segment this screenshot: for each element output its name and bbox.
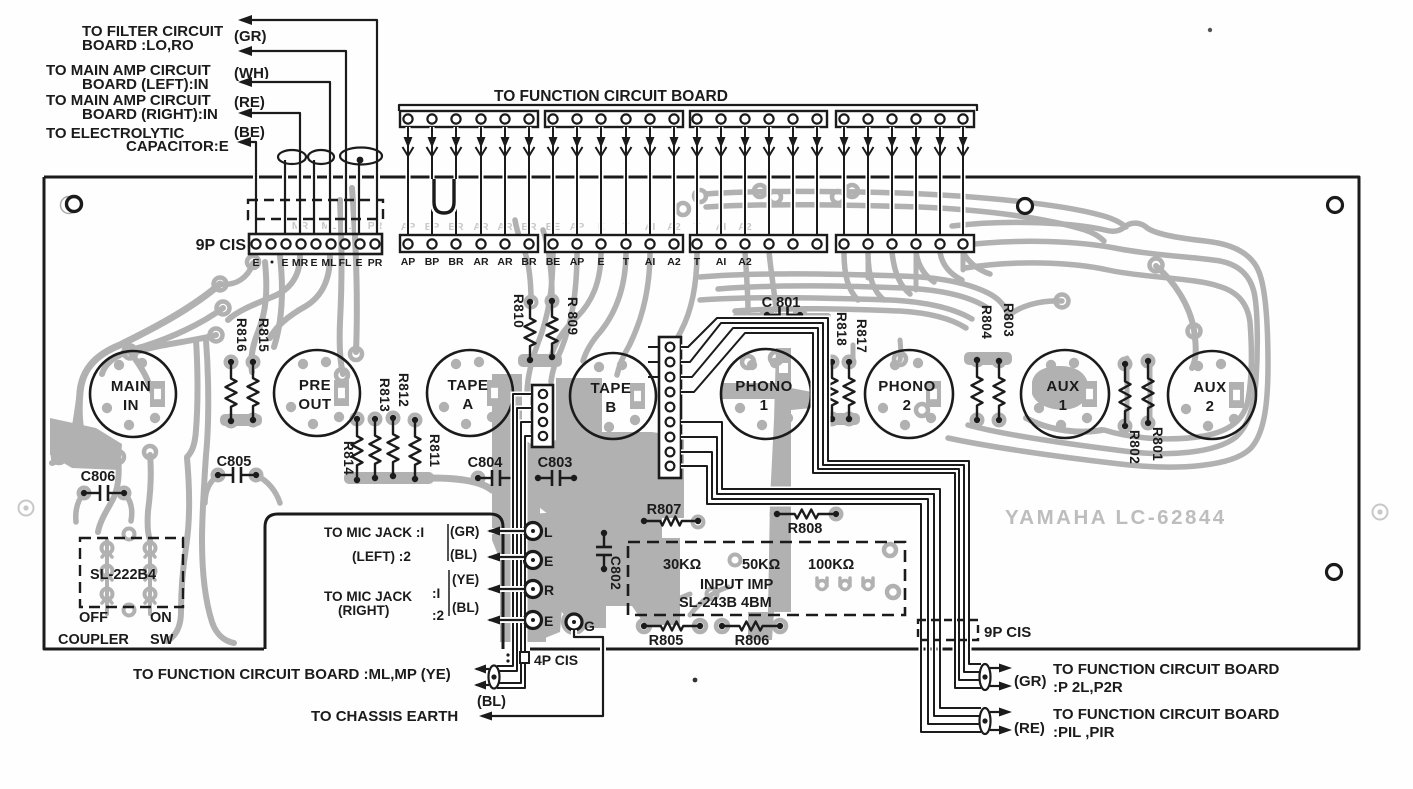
screw hole bottom-right bbox=[1327, 565, 1342, 580]
svg-text:C804: C804 bbox=[468, 455, 503, 471]
svg-text:BE: BE bbox=[546, 256, 561, 268]
mic pad E2 bbox=[525, 612, 542, 629]
resistor R802 bbox=[1120, 364, 1131, 426]
svg-text:R812: R812 bbox=[396, 373, 411, 407]
svg-text:SW: SW bbox=[150, 632, 174, 648]
svg-text:A2: A2 bbox=[667, 256, 681, 268]
component circle PHONO 1 bbox=[721, 349, 811, 439]
svg-text::2: :2 bbox=[432, 608, 445, 623]
svg-text:R802: R802 bbox=[1127, 430, 1142, 464]
svg-text:FL: FL bbox=[339, 257, 352, 269]
svg-text:PHONO: PHONO bbox=[878, 378, 936, 395]
lower bundle wire 3 bbox=[681, 452, 981, 724]
upper bundle wire 4 bbox=[681, 333, 981, 688]
input impedance box SL-243B bbox=[628, 542, 905, 615]
connector 9P CIS top dashed housing bbox=[248, 200, 383, 219]
mic bundle wire 1 bbox=[497, 394, 531, 666]
pads inside component circles bbox=[114, 360, 124, 370]
resistor R808 bbox=[777, 510, 836, 519]
svg-text:(RIGHT): (RIGHT) bbox=[338, 603, 389, 618]
wires group 4 bbox=[842, 127, 847, 235]
pads top-left bbox=[247, 256, 259, 268]
svg-text:ML: ML bbox=[321, 257, 337, 269]
lower bundle wire 1 bbox=[681, 422, 981, 708]
svg-text:COUPLER: COUPLER bbox=[58, 632, 129, 648]
mic arrow 4 bbox=[489, 617, 524, 623]
svg-text:(BL): (BL) bbox=[452, 600, 479, 615]
svg-text:B: B bbox=[605, 399, 616, 416]
pads inside INPUT IMP box bbox=[647, 555, 658, 566]
svg-text:E: E bbox=[281, 257, 288, 269]
svg-text:30KΩ: 30KΩ bbox=[663, 557, 702, 573]
svg-text:R816: R816 bbox=[234, 318, 249, 352]
arrow RE 2 bbox=[990, 729, 1000, 731]
bracket lines mic labels bbox=[447, 524, 449, 561]
svg-text:G: G bbox=[584, 618, 595, 634]
capacitor C804 bbox=[478, 477, 492, 479]
svg-text:R: R bbox=[544, 582, 554, 598]
svg-text:(BL): (BL) bbox=[450, 547, 477, 562]
lower bundle wire 4 bbox=[681, 466, 981, 732]
arrow GR 2 bbox=[990, 685, 1000, 687]
wire pin5 stub bbox=[311, 160, 317, 235]
svg-text:100KΩ: 100KΩ bbox=[808, 557, 855, 573]
svg-text:TO FUNCTION CIRCUIT BOARD: TO FUNCTION CIRCUIT BOARD bbox=[494, 88, 728, 105]
connector 9P CIS bottom dashed bbox=[918, 620, 978, 640]
connector group 1 bottom row bbox=[400, 235, 538, 252]
gray band through PHONO 1 bbox=[721, 383, 776, 399]
svg-text:4P CIS: 4P CIS bbox=[534, 652, 578, 668]
connector group 2 top row bbox=[545, 111, 683, 127]
arrow GR 1 bbox=[990, 667, 1000, 669]
ground plane blob center bbox=[536, 378, 684, 628]
resistor R803 bbox=[994, 361, 1005, 420]
resistor R815 bbox=[248, 362, 259, 420]
resistor R811 bbox=[410, 420, 421, 479]
speck bottom middle bbox=[693, 678, 698, 683]
svg-text:AI: AI bbox=[716, 256, 727, 268]
cable bundle ellipse 1 bbox=[278, 150, 306, 164]
capacitor C802 bbox=[603, 533, 605, 547]
arrow YE 2 bbox=[476, 684, 489, 686]
component circle MAIN IN bbox=[90, 351, 176, 437]
svg-text:PR: PR bbox=[368, 257, 383, 269]
svg-text:R 809: R 809 bbox=[565, 297, 580, 336]
svg-text:OUT: OUT bbox=[298, 396, 331, 413]
svg-text:BR: BR bbox=[521, 256, 537, 268]
gray tail under PHONO 1 bbox=[768, 348, 791, 612]
svg-text:TO MIC JACK :I: TO MIC JACK :I bbox=[324, 525, 424, 540]
svg-text:(BL): (BL) bbox=[477, 694, 506, 710]
stub traces from group 4 pins bbox=[844, 252, 858, 300]
svg-text:R807: R807 bbox=[647, 502, 682, 518]
svg-text:AR: AR bbox=[497, 256, 513, 268]
resistor R810 bbox=[525, 302, 536, 360]
component circle PRE OUT bbox=[274, 350, 360, 436]
traces around PRE OUT bbox=[251, 262, 266, 372]
svg-text::P 2L,P2R: :P 2L,P2R bbox=[1053, 679, 1123, 696]
component circle PHONO 2 bbox=[865, 350, 953, 438]
component circle AUX 1 bbox=[1021, 350, 1109, 438]
svg-text:2: 2 bbox=[1206, 398, 1215, 415]
mic pad R bbox=[525, 581, 542, 598]
cable ellipse YE bbox=[489, 666, 500, 689]
svg-text:AI: AI bbox=[645, 256, 656, 268]
svg-text:MR: MR bbox=[292, 257, 309, 269]
svg-text:AUX: AUX bbox=[1046, 378, 1079, 395]
svg-text:T: T bbox=[623, 256, 630, 268]
arrow YE 1 bbox=[476, 668, 489, 670]
nested loops around AUX 2 bbox=[948, 222, 1268, 467]
long horizontal traces below connectors bbox=[700, 274, 1008, 316]
wire pin8 stub bbox=[356, 162, 362, 235]
svg-text:YAMAHA LC-62844: YAMAHA LC-62844 bbox=[1005, 506, 1227, 529]
svg-text:1: 1 bbox=[1059, 397, 1068, 414]
capacitor C801 bbox=[767, 314, 780, 316]
svg-text:BOARD (RIGHT):IN: BOARD (RIGHT):IN bbox=[82, 106, 218, 123]
svg-text:ON: ON bbox=[150, 610, 172, 626]
capacitor C806 bbox=[84, 492, 100, 494]
vertical traces behind R802 R801 bbox=[1125, 358, 1130, 426]
connector group 3 bottom row bbox=[690, 235, 827, 252]
chassis earth wire bbox=[482, 630, 603, 716]
svg-text::I: :I bbox=[432, 586, 440, 601]
gray pads behind mic jack pads bbox=[523, 521, 544, 542]
svg-text:A2: A2 bbox=[738, 256, 752, 268]
connector 9-hole left stubs bbox=[648, 346, 659, 348]
screw hole top-middle bbox=[1018, 199, 1033, 214]
mic arrow 3 bbox=[489, 586, 524, 592]
bracket line bbox=[399, 105, 977, 111]
screw hole top-left bbox=[61, 197, 78, 214]
mic arrow 2 bbox=[489, 554, 524, 560]
mic arrow 1 bbox=[489, 528, 524, 534]
copper trace layer (gray) bbox=[50, 185, 1268, 643]
svg-text:2: 2 bbox=[903, 397, 912, 414]
connector 4-hole near TAPE A bbox=[532, 385, 553, 447]
svg-text:R808: R808 bbox=[788, 521, 823, 537]
resistor R806 bbox=[722, 622, 780, 631]
svg-text:(LEFT) :2: (LEFT) :2 bbox=[352, 549, 411, 564]
svg-text:IN: IN bbox=[123, 397, 139, 414]
svg-text:(RE): (RE) bbox=[234, 94, 265, 111]
mic pad E bbox=[525, 552, 542, 569]
screw hole top-right bbox=[1328, 198, 1343, 213]
svg-text:R806: R806 bbox=[735, 633, 770, 649]
upper bundle wire 3 bbox=[681, 328, 981, 680]
svg-text:AP: AP bbox=[570, 256, 585, 268]
fiducial target right margin bbox=[1373, 505, 1388, 520]
svg-text:TO CHASSIS EARTH: TO CHASSIS EARTH bbox=[311, 708, 458, 725]
svg-text:TO MIC JACK: TO MIC JACK bbox=[324, 589, 412, 604]
wire GR-1 to filter board bbox=[241, 20, 377, 235]
connector group 4 top row bbox=[836, 111, 974, 127]
long horizontal traces upper band bbox=[706, 191, 1126, 227]
blob below MAIN IN bbox=[50, 418, 122, 470]
wires group 1 bbox=[406, 127, 411, 235]
connector group 1 top row bbox=[400, 111, 538, 127]
svg-text:CAPACITOR:E: CAPACITOR:E bbox=[126, 138, 229, 155]
component circle AUX 2 bbox=[1168, 351, 1256, 439]
svg-text:E: E bbox=[252, 257, 259, 269]
connector 9P CIS top bbox=[249, 234, 382, 254]
svg-text:E: E bbox=[310, 257, 317, 269]
svg-text:R817: R817 bbox=[854, 319, 869, 353]
svg-text:MAIN: MAIN bbox=[111, 378, 151, 395]
svg-text:R814: R814 bbox=[341, 441, 356, 475]
svg-text:BOARD :LO,RO: BOARD :LO,RO bbox=[82, 37, 194, 54]
capacitor C805 bbox=[218, 474, 233, 476]
wire RE to main amp right bbox=[241, 113, 300, 235]
pads under resistor terminals bbox=[226, 357, 237, 368]
svg-text:R803: R803 bbox=[1001, 303, 1016, 337]
cable bundle ellipse 2 bbox=[308, 150, 334, 164]
ground pad G bbox=[566, 614, 582, 630]
svg-text:9P CIS: 9P CIS bbox=[984, 624, 1031, 641]
resistor R801 bbox=[1143, 361, 1154, 423]
resistor R804 bbox=[972, 360, 983, 420]
mic bundle wire 3 bbox=[497, 422, 531, 683]
svg-text:SL-222B4: SL-222B4 bbox=[90, 567, 156, 583]
svg-text:C803: C803 bbox=[538, 455, 573, 471]
svg-text:R810: R810 bbox=[511, 294, 526, 328]
svg-text:BOARD (LEFT):IN: BOARD (LEFT):IN bbox=[82, 76, 209, 93]
mic bundle wire 2 bbox=[497, 408, 531, 671]
svg-text::PIL ,PIR: :PIL ,PIR bbox=[1053, 724, 1115, 741]
component circle TAPE A bbox=[427, 350, 513, 436]
connector 4P CIS bbox=[520, 652, 529, 663]
svg-text:E: E bbox=[544, 613, 553, 629]
svg-text:L: L bbox=[544, 524, 553, 540]
gray bus under R814-R811 bbox=[344, 472, 434, 484]
svg-text:TAPE: TAPE bbox=[448, 377, 489, 394]
svg-text:(RE): (RE) bbox=[1014, 720, 1045, 737]
svg-text:BR: BR bbox=[448, 256, 464, 268]
component circle TAPE B bbox=[570, 353, 656, 439]
traces top-left fan bbox=[220, 263, 253, 284]
svg-text:1: 1 bbox=[760, 397, 769, 414]
svg-text:R815: R815 bbox=[256, 318, 271, 352]
inner trace to AUX2 top bbox=[1156, 266, 1196, 368]
svg-text:T: T bbox=[694, 256, 701, 268]
svg-text:OFF: OFF bbox=[79, 610, 108, 626]
wire pin3 stub bbox=[282, 160, 288, 235]
traces from function connector down-left bbox=[527, 252, 553, 394]
svg-text:C806: C806 bbox=[81, 469, 116, 485]
svg-text:AR: AR bbox=[473, 256, 489, 268]
svg-text:(GR): (GR) bbox=[234, 28, 267, 45]
resistor R813 bbox=[370, 419, 381, 478]
svg-text:SL-243B 4BM: SL-243B 4BM bbox=[679, 595, 772, 611]
resistor R805 bbox=[644, 622, 700, 631]
switch box SL-222B4 bbox=[80, 538, 183, 607]
connector group 3 top row bbox=[690, 111, 827, 127]
connector group 2 bottom row bbox=[545, 235, 683, 252]
mic pad L bbox=[525, 523, 542, 540]
resistor R809 bbox=[547, 301, 558, 357]
speck top right bbox=[1208, 28, 1212, 32]
resistor R816 bbox=[226, 362, 237, 421]
mic bundle wire 4 bbox=[497, 436, 531, 688]
U-shaped jumper bbox=[434, 179, 454, 213]
gray zone behind mic pads bbox=[516, 512, 566, 640]
connector 9-hole near TAPE B bbox=[659, 337, 681, 478]
ground plane column under TAPE A bbox=[492, 374, 546, 642]
svg-text:R818: R818 bbox=[834, 312, 849, 346]
cable ellipse GR bbox=[980, 664, 991, 690]
gray fill inside AUX 1 bbox=[1032, 366, 1088, 410]
svg-text:E: E bbox=[355, 257, 362, 269]
svg-text:E: E bbox=[544, 553, 553, 569]
svg-text:R801: R801 bbox=[1150, 427, 1165, 461]
svg-text:BP: BP bbox=[425, 256, 440, 268]
cable bundle ellipse 3 bbox=[340, 148, 382, 165]
lower bundle wire 2 bbox=[681, 437, 981, 716]
svg-text:TO FUNCTION CIRCUIT BOARD :ML,: TO FUNCTION CIRCUIT BOARD :ML,MP (YE) bbox=[133, 666, 451, 683]
svg-text:AUX: AUX bbox=[1193, 379, 1226, 396]
capacitor C803 bbox=[538, 477, 552, 479]
resistor R817 bbox=[844, 362, 855, 419]
svg-text:TAPE: TAPE bbox=[591, 380, 632, 397]
resistor R812 bbox=[388, 418, 399, 476]
svg-text:R811: R811 bbox=[427, 434, 442, 468]
upper bundle wire 2 bbox=[681, 323, 981, 672]
svg-text:(GR): (GR) bbox=[450, 524, 479, 539]
fiducial target left margin bbox=[19, 501, 34, 516]
svg-text:C802: C802 bbox=[608, 556, 623, 590]
svg-text:9P CIS: 9P CIS bbox=[196, 237, 247, 254]
gray trace under C801 bbox=[736, 313, 828, 319]
pads near R805/R806 and C802 bbox=[638, 620, 650, 632]
resistor R807 bbox=[644, 517, 698, 526]
svg-text:TO FUNCTION CIRCUIT BOARD: TO FUNCTION CIRCUIT BOARD bbox=[1053, 706, 1280, 723]
arrow RE 1 bbox=[990, 711, 1000, 713]
svg-text:(YE): (YE) bbox=[452, 572, 479, 587]
cable ellipse RE bbox=[980, 708, 991, 734]
wire WH to main amp left bbox=[241, 82, 330, 235]
svg-text:AP: AP bbox=[401, 256, 416, 268]
upper bundle wire 1 bbox=[681, 318, 981, 664]
svg-text:R805: R805 bbox=[649, 633, 684, 649]
svg-text:A: A bbox=[462, 396, 473, 413]
wire GR-2 to filter board bbox=[241, 51, 346, 235]
svg-text:C 801: C 801 bbox=[762, 295, 801, 311]
resistor R814 bbox=[352, 419, 363, 480]
short stubs from pins bbox=[866, 252, 871, 278]
svg-text:PHONO: PHONO bbox=[735, 378, 793, 395]
board outline bbox=[44, 177, 1359, 649]
svg-text:(GR): (GR) bbox=[1014, 673, 1047, 690]
svg-text:E: E bbox=[597, 256, 604, 268]
svg-text:R804: R804 bbox=[979, 305, 994, 339]
svg-text:50KΩ: 50KΩ bbox=[742, 557, 781, 573]
wires group 3 bbox=[695, 127, 700, 235]
svg-text:INPUT IMP: INPUT IMP bbox=[700, 577, 774, 593]
gray bus under R810/R809 bbox=[518, 354, 562, 367]
switch pad forks inside SL-222B4 bbox=[102, 543, 113, 554]
svg-text:R813: R813 bbox=[377, 378, 392, 412]
resistor R818 bbox=[827, 362, 838, 419]
wires group 2 bbox=[551, 127, 556, 235]
wire BE to electrolytic capacitor bbox=[240, 142, 256, 235]
svg-text:PRE: PRE bbox=[299, 377, 331, 394]
svg-text:TO FUNCTION CIRCUIT BOARD: TO FUNCTION CIRCUIT BOARD bbox=[1053, 661, 1280, 678]
svg-text:C805: C805 bbox=[217, 454, 252, 470]
connector group 4 bottom row bbox=[836, 235, 974, 252]
